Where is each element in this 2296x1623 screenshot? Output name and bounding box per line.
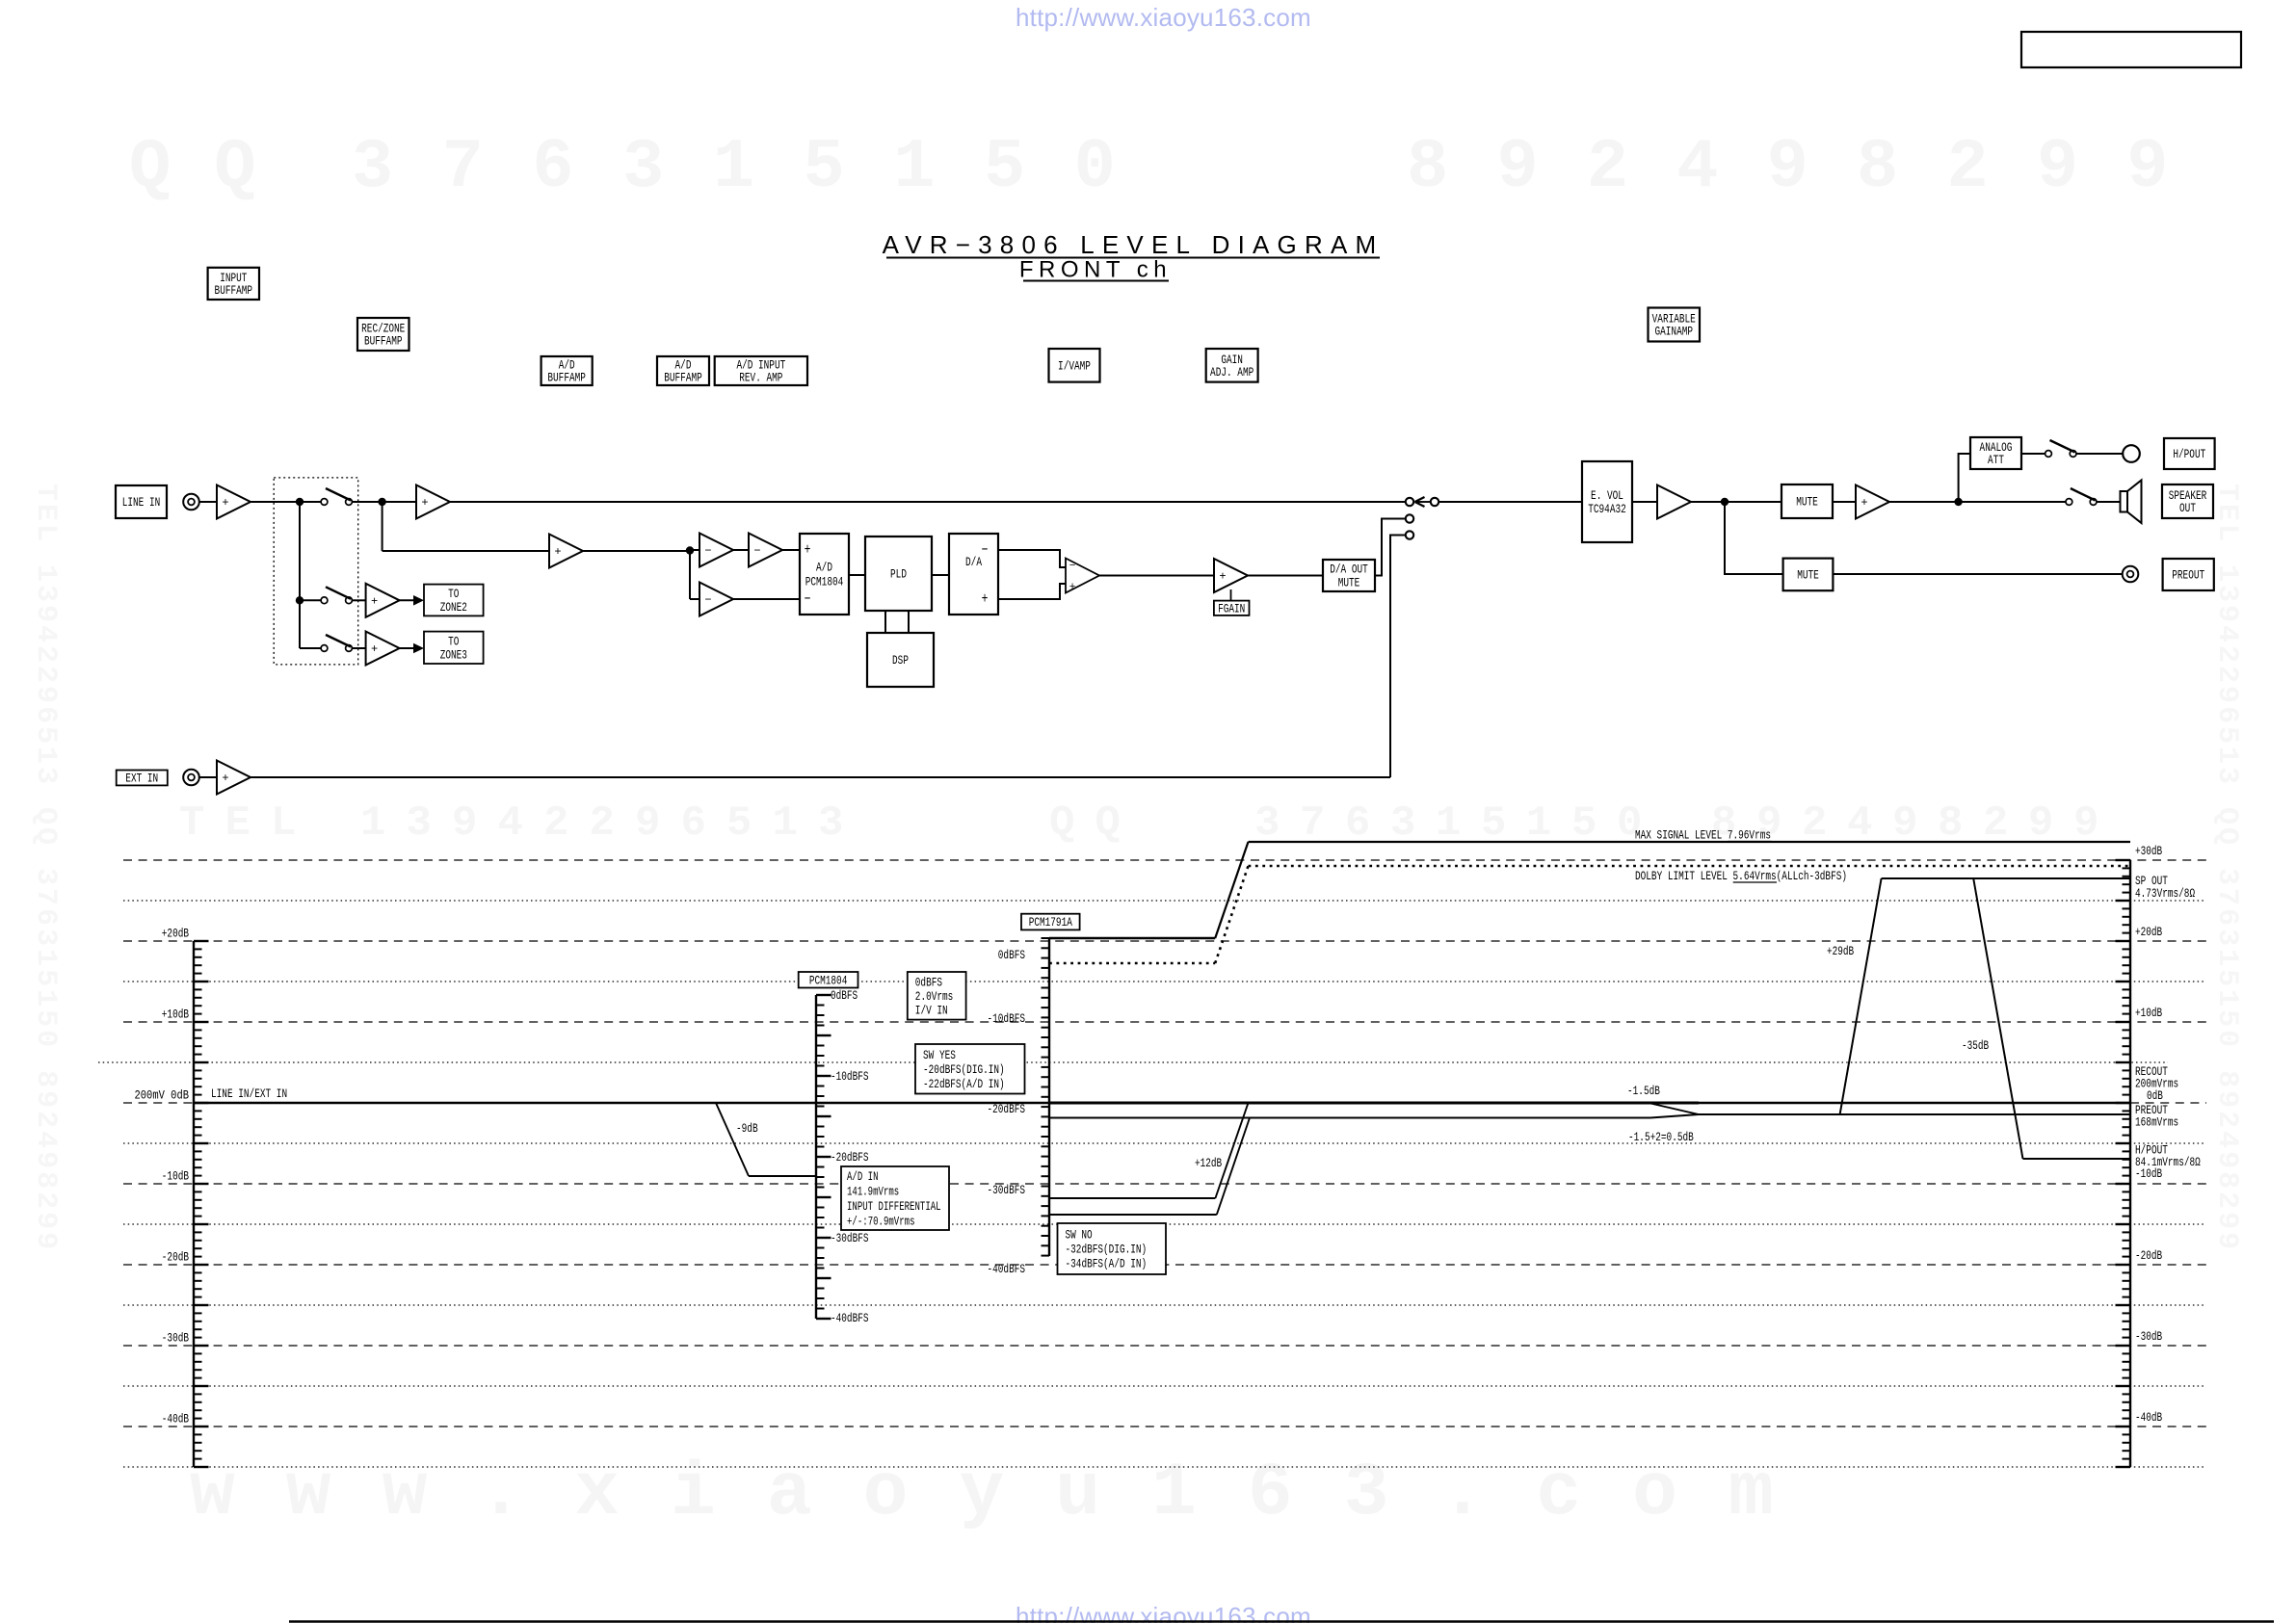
grid dashed -40dB [123, 1426, 2206, 1427]
switch S5 speaker [2066, 488, 2097, 505]
svg-text:MUTE: MUTE [1338, 576, 1360, 590]
svg-text:2.0Vrms: 2.0Vrms [915, 989, 954, 1004]
svg-text:ADJ. AMP: ADJ. AMP [1210, 365, 1254, 380]
svg-text:-40dB: -40dB [2135, 1410, 2162, 1425]
wire PLD to DSP left [884, 611, 886, 633]
grid dotted -5dB [123, 1142, 2206, 1144]
svg-text:+29dB: +29dB [1827, 944, 1854, 958]
svg-text:BUFFAMP: BUFFAMP [215, 283, 253, 298]
PCM1791A axis [1042, 938, 1050, 1256]
label box TO ZONE2 [424, 585, 484, 616]
svg-text:GAINAMP: GAINAMP [1655, 325, 1694, 339]
svg-text:+: + [371, 594, 378, 608]
annotation box I/V IN [908, 972, 966, 1020]
svg-text:TO: TO [448, 635, 459, 649]
svg-text:TEL 13942296513 QQ 376315150 8: TEL 13942296513 QQ 376315150 892498299 [29, 484, 62, 1252]
label box H/POUT [2164, 438, 2215, 469]
svg-text:+: + [222, 772, 228, 785]
switch S1 input [321, 488, 352, 505]
wire REC buffer to AD buffers [581, 550, 690, 552]
svg-text:ATT: ATT [1988, 453, 2004, 467]
wire AD to PLD [849, 574, 865, 576]
svg-text:−: − [982, 541, 989, 559]
svg-text:+30dB: +30dB [2135, 844, 2162, 858]
wire EXT IN riser to selector [1390, 536, 1405, 778]
label box LINE IN [116, 485, 167, 518]
svg-text:0dBFS: 0dBFS [915, 976, 942, 990]
block A/D PCM1804 [800, 534, 849, 615]
svg-text:-10dBFS: -10dBFS [831, 1069, 869, 1084]
junction main after amp [296, 498, 303, 506]
grid dashed +10dB [123, 1021, 2206, 1023]
grid dashed 0dB left stub [123, 1102, 194, 1104]
wire DA minus output [998, 550, 1066, 567]
op-amp A8 ad buffer inv2 [699, 583, 733, 616]
wire FGAIN box stub [1230, 589, 1232, 601]
level dotted DOLBY LIMIT LEVEL [1249, 865, 2131, 868]
op-amp A9 I/V diff amp [1066, 559, 1099, 594]
svg-text:+: + [982, 590, 989, 608]
svg-text:-30dBFS: -30dBFS [831, 1231, 869, 1245]
wire EXT IN amp to riser [251, 776, 1390, 778]
svg-text:+: + [1219, 570, 1226, 584]
svg-text:MUTE: MUTE [1797, 568, 1819, 583]
label box INPUT BUFFAMP [208, 268, 259, 300]
wire amp to AD converter plus [781, 549, 800, 551]
op-amp A1 input buffer [217, 485, 251, 519]
svg-text:PCM1804: PCM1804 [809, 974, 848, 988]
wire amp to mute junction [1690, 501, 1781, 503]
level line PREOUT 168mVrms [1699, 1113, 2130, 1115]
svg-text:QQ: QQ [129, 128, 299, 207]
wire selector to EVOL [1439, 501, 1583, 503]
op-amp A5 zone3 buffer [366, 632, 400, 666]
svg-text:-35dB: -35dB [1962, 1038, 1989, 1053]
wire EVOL to amp [1632, 501, 1657, 503]
svg-text:SW NO: SW NO [1066, 1228, 1093, 1243]
svg-text:A/D IN: A/D IN [847, 1170, 879, 1184]
svg-text:+20dB: +20dB [162, 927, 189, 941]
level line -1.5dB branch from 0dB [1649, 1103, 1699, 1114]
label box PREOUT [2163, 559, 2214, 590]
arrow to ZONE3 [413, 643, 424, 654]
level line -9dB ramp [716, 1103, 749, 1176]
label box VARIABLE GAINAMP [1649, 308, 1701, 342]
svg-text:-9dB: -9dB [736, 1121, 758, 1136]
svg-text:+/-:70.9mVrms: +/-:70.9mVrms [847, 1215, 915, 1228]
switch S4 headphone [2045, 440, 2076, 457]
svg-text:FGAIN: FGAIN [1218, 602, 1245, 616]
junction analog att [1954, 498, 1962, 506]
dotted selector box [274, 478, 358, 665]
level line MAX SIGNAL LEVEL 7.96Vrms [1249, 841, 2131, 843]
svg-text:REV. AMP: REV. AMP [739, 371, 782, 385]
svg-text:MAX SIGNAL LEVEL 7.96Vrms: MAX SIGNAL LEVEL 7.96Vrms [1635, 828, 1771, 843]
annotation box SW YES [915, 1044, 1025, 1094]
svg-text:www.xiaoyu163.com: www.xiaoyu163.com [190, 1452, 1825, 1536]
label box GAIN ADJ.AMP [1206, 349, 1258, 382]
svg-text:-20dB: -20dB [2135, 1248, 2162, 1263]
svg-text:LINE IN: LINE IN [122, 495, 161, 510]
svg-text:-40dBFS: -40dBFS [831, 1311, 869, 1325]
wire between inverting amps [732, 549, 749, 551]
svg-text:DSP: DSP [892, 653, 909, 668]
level line A/D IN [749, 1175, 816, 1177]
wire junction down to REC buffer [382, 502, 383, 551]
svg-text:BUFFAMP: BUFFAMP [547, 371, 586, 385]
junction zone2 [296, 596, 303, 604]
svg-text:-20dB: -20dB [162, 1250, 189, 1265]
grid dashed +30dB [123, 859, 2206, 861]
label box TO ZONE3 [424, 632, 484, 664]
op-amp A11 volume amp [1657, 485, 1691, 519]
grid dashed -20dB [123, 1264, 2206, 1266]
svg-text:I/VAMP: I/VAMP [1058, 359, 1091, 374]
block DSP [867, 633, 934, 687]
wire junction down to MUTE2 [1725, 502, 1783, 574]
wire final amp to speaker switch [1888, 501, 2066, 503]
junction rec/ad split [686, 546, 694, 554]
svg-text:BUFFAMP: BUFFAMP [664, 371, 702, 385]
level line -22dBFS out of PCM1791A [1049, 1117, 1650, 1119]
wire junction to upper inverting amp [690, 549, 699, 551]
PCM1804 axis [816, 995, 831, 1319]
wire zone3 switch to amp [352, 647, 366, 649]
level dotted DOLBY ramp [1215, 866, 1248, 963]
right dB axis [2116, 860, 2131, 1467]
svg-text:+: + [805, 541, 811, 559]
grid solid 0dB reference LINE IN/EXT IN level [194, 1102, 2130, 1104]
svg-text:QQ: QQ [1049, 799, 1141, 848]
svg-text:D/A: D/A [965, 555, 982, 569]
level ramp -35dB headphone [1973, 878, 2022, 1159]
svg-text:+: + [421, 496, 428, 510]
wire buffer to switch [251, 501, 321, 503]
wire zone2 amp to arrow [399, 599, 417, 601]
svg-text:-30dB: -30dB [2135, 1329, 2162, 1344]
svg-text:168mVrms: 168mVrms [2135, 1115, 2178, 1130]
svg-text:+20dB: +20dB [2135, 925, 2162, 939]
svg-text:−: − [805, 590, 811, 608]
svg-text:0dBFS: 0dBFS [998, 948, 1025, 962]
svg-text:TO: TO [448, 587, 459, 601]
svg-text:-20dBFS(DIG.IN): -20dBFS(DIG.IN) [923, 1062, 1005, 1077]
svg-text:+: + [554, 545, 561, 559]
op-amp A12 power amp [1856, 485, 1889, 519]
level ramp +29dB speaker [1840, 878, 1882, 1114]
switch S3 zone3 [321, 635, 352, 651]
svg-text:OUT: OUT [2179, 501, 2196, 515]
selector contact EXT [1406, 531, 1413, 538]
svg-text:-40dB: -40dB [162, 1412, 189, 1427]
op-amp A2 main buffer [416, 485, 450, 519]
level line MAX SIGNAL ramp [1215, 842, 1248, 938]
svg-text:DOLBY LIMIT LEVEL 5.64Vrms(ALL: DOLBY LIMIT LEVEL 5.64Vrms(ALLch-3dBFS) [1635, 869, 1847, 883]
svg-text:-1.5dB: -1.5dB [1627, 1084, 1660, 1098]
wire zone3 amp to arrow [399, 647, 417, 649]
annotation box A/D IN [841, 1166, 949, 1230]
level ramp +12dB upper [1215, 1103, 1248, 1198]
svg-text:TC94A32: TC94A32 [1588, 502, 1626, 516]
svg-text:+10dB: +10dB [2135, 1006, 2162, 1020]
svg-text:-34dBFS(A/D IN): -34dBFS(A/D IN) [1066, 1257, 1148, 1271]
op-amp A4 zone2 buffer [366, 584, 400, 617]
wire LINE IN jack to buffer [199, 501, 217, 503]
label MAX SIGNAL LEVEL [1635, 828, 1772, 843]
grid dotted +5dB [98, 1061, 2168, 1063]
block D/A [949, 534, 998, 615]
svg-text:-10dB: -10dB [162, 1169, 189, 1184]
svg-text:PCM1804: PCM1804 [805, 575, 844, 589]
svg-text:ZONE2: ZONE2 [440, 600, 467, 615]
switch S2 zone2 [321, 587, 352, 603]
jack PREOUT [2123, 566, 2139, 583]
level line kink to PREOUT [1650, 1114, 1699, 1118]
selector contact DA [1406, 514, 1413, 522]
grid dotted +15dB [123, 981, 2206, 982]
svg-text:-30dBFS: -30dBFS [988, 1183, 1026, 1197]
svg-text:+10dB: +10dB [162, 1008, 189, 1022]
svg-text:PREOUT: PREOUT [2172, 568, 2204, 583]
svg-text:AVR−3806 LEVEL DIAGRAM: AVR−3806 LEVEL DIAGRAM [883, 230, 1385, 259]
svg-text:LINE IN/EXT IN: LINE IN/EXT IN [211, 1086, 287, 1101]
title FRONT ch [1019, 257, 1172, 283]
grid dotted -25dB [123, 1304, 2206, 1306]
svg-text:http://www.xiaoyu163.com: http://www.xiaoyu163.com [1016, 1602, 1311, 1623]
wire FGAIN amp to DA OUT MUTE [1246, 575, 1323, 577]
svg-text:−: − [704, 544, 711, 558]
svg-text:ZONE3: ZONE3 [440, 648, 467, 663]
speaker symbol [2121, 481, 2142, 524]
junction before A2 [378, 498, 385, 506]
arrow to ZONE2 [413, 595, 424, 606]
selector contact common [1431, 498, 1438, 506]
left dB axis [194, 941, 209, 1467]
label DOLBY LIMIT LEVEL [1635, 869, 1847, 883]
wire MUTE2 to PREOUT jack [1833, 573, 2122, 575]
wire hp switch to jack [2076, 453, 2124, 455]
op-amp A10 gain adj [1214, 559, 1248, 592]
wire junction down to lower inverting amp [689, 550, 691, 599]
svg-text:MUTE: MUTE [1796, 495, 1818, 510]
block D/A OUT MUTE [1323, 560, 1375, 591]
op-amp A3 rec/zone buffer [549, 535, 583, 568]
wire zone2 junction to switch [300, 599, 321, 601]
svg-text:SW YES: SW YES [923, 1048, 956, 1062]
svg-text:4.73Vrms/8Ω: 4.73Vrms/8Ω [2135, 886, 2195, 901]
wire speaker switch to speaker [2097, 501, 2121, 503]
wire zone2 branch vertical [299, 502, 301, 648]
wire ANALOG ATT to hp switch [2021, 453, 2045, 455]
wire EXT IN jack to amp [199, 776, 217, 778]
grid dotted +25dB [123, 900, 2206, 902]
bottom edge dark line [289, 1620, 2274, 1622]
svg-text:376315150: 376315150 [1254, 799, 1662, 848]
wire zone2 switch to amp [352, 599, 366, 601]
jack H/P OUT [2123, 445, 2140, 462]
label box REC/ZONE BUFFAMP [357, 318, 409, 351]
svg-text:H/POUT: H/POUT [2173, 447, 2205, 461]
svg-text:-20dBFS: -20dBFS [988, 1102, 1026, 1116]
svg-text:200mV 0dB: 200mV 0dB [135, 1088, 190, 1103]
svg-text:-22dBFS(A/D IN): -22dBFS(A/D IN) [923, 1077, 1005, 1091]
top right blank box [2021, 32, 2241, 67]
block E.VOL TC94A32 [1582, 461, 1632, 542]
level line -20dBFS+12dB merged with 0dB [1049, 1102, 1699, 1105]
junction evol out [1721, 498, 1729, 506]
svg-text:+: + [371, 642, 378, 656]
svg-text:http://www.xiaoyu163.com: http://www.xiaoyu163.com [1016, 3, 1311, 32]
svg-text:BUFFAMP: BUFFAMP [364, 334, 403, 349]
svg-text:−: − [753, 544, 760, 558]
svg-text:+: + [222, 496, 228, 510]
wire junction up to ANALOG ATT [1959, 454, 1970, 502]
level line 0dBFS top bar PCM1791A [1049, 937, 1215, 939]
annotation box SW NO [1058, 1223, 1167, 1274]
label box A/D INPUT REV.AMP [715, 356, 807, 385]
main wire A2 to selector [449, 501, 1405, 503]
svg-text:A/D: A/D [816, 561, 832, 575]
grid dotted -45dB [123, 1466, 2206, 1468]
wire switch to A2 [352, 501, 416, 503]
wire DA plus output [998, 584, 1066, 599]
svg-text:-10dB: -10dB [2135, 1166, 2162, 1181]
svg-text:-10dBFS: -10dBFS [988, 1011, 1026, 1026]
svg-text:0dBFS: 0dBFS [831, 988, 858, 1003]
grid dashed -10dB [123, 1183, 2206, 1185]
grid dotted -35dB [123, 1385, 2206, 1387]
label box EXT IN [117, 771, 168, 786]
svg-text:-32dBFS(DIG.IN): -32dBFS(DIG.IN) [1066, 1243, 1148, 1257]
wire PLD to DA [932, 574, 949, 576]
svg-text:EXT IN: EXT IN [125, 772, 158, 786]
selector arrow [1415, 497, 1431, 507]
grid dotted -15dB [123, 1223, 2206, 1225]
selector contact main [1406, 498, 1413, 506]
label box SPEAKER OUT [2162, 484, 2213, 518]
op-amp A6 ad buffer inv1 [699, 534, 733, 567]
grid dashed +20dB [123, 940, 2206, 942]
label box A/D BUFFAMP 2 [657, 356, 709, 385]
svg-text:PLD: PLD [890, 567, 907, 582]
svg-text:376315150: 376315150 [352, 128, 1164, 207]
jack EXT IN [183, 770, 199, 786]
svg-text:-30dB: -30dB [162, 1331, 189, 1346]
level ramp +12dB lower [1217, 1118, 1250, 1216]
label box I/VAMP [1049, 349, 1100, 382]
op-amp A13 ext in buffer [217, 761, 251, 795]
svg-text:892498299: 892498299 [1407, 128, 2217, 207]
svg-text:−: − [704, 593, 711, 607]
svg-text:−: − [1069, 561, 1076, 572]
wire MUTE to final amp [1833, 501, 1856, 503]
op-amp A7 ad input rev [749, 534, 782, 567]
PCM1791A title box [1021, 914, 1080, 930]
label box A/D BUFFAMP 1 [541, 356, 593, 385]
level dotted DOLBY at -3dBFS [1049, 962, 1215, 965]
svg-text:-40dBFS: -40dBFS [988, 1262, 1026, 1276]
level line SW NO -34dBFS [1049, 1214, 1217, 1216]
grid dashed 0dB right stub [2130, 1102, 2206, 1104]
jack LINE IN [183, 494, 199, 510]
svg-text:0dB: 0dB [2147, 1088, 2163, 1103]
svg-text:141.9mVrms: 141.9mVrms [847, 1185, 899, 1198]
block FGAIN [1214, 601, 1250, 616]
level line SW NO -32dBFS [1049, 1197, 1215, 1199]
wire diff amp to FGAIN amp [1099, 575, 1214, 577]
wire DA OUT MUTE up to selector [1375, 519, 1405, 576]
svg-text:+: + [1069, 582, 1076, 593]
grid dashed -30dB [123, 1345, 2206, 1347]
svg-text:E. VOL: E. VOL [1591, 488, 1623, 503]
svg-text:+12dB: +12dB [1195, 1156, 1222, 1170]
svg-text:-20dBFS: -20dBFS [831, 1150, 869, 1165]
svg-text:TEL: TEL [179, 799, 317, 848]
svg-text:TEL 13942296513 QQ 376315150 8: TEL 13942296513 QQ 376315150 892498299 [2210, 484, 2243, 1252]
level line H/POUT [2023, 1158, 2131, 1160]
svg-text:I/V IN: I/V IN [915, 1004, 948, 1018]
PCM1804 title box [799, 972, 858, 988]
svg-text:+: + [1861, 496, 1867, 510]
block PLD [865, 537, 932, 611]
svg-text:892498299: 892498299 [1711, 799, 2119, 848]
block MUTE 1 [1781, 484, 1833, 518]
level line SP OUT 4.73Vrms [1882, 877, 2130, 879]
title AVR-3806 LEVEL DIAGRAM [883, 230, 1385, 259]
svg-text:INPUT DIFFERENTIAL: INPUT DIFFERENTIAL [847, 1200, 941, 1214]
block MUTE 2 [1783, 559, 1834, 591]
svg-text:FRONT ch: FRONT ch [1019, 257, 1172, 283]
svg-text:D/A OUT: D/A OUT [1330, 563, 1368, 577]
block ANALOG ATT [1970, 437, 2021, 469]
svg-text:-1.5+2=0.5dB: -1.5+2=0.5dB [1628, 1130, 1694, 1144]
wire lower amp to AD converter minus [732, 598, 800, 600]
svg-text:PCM1791A: PCM1791A [1029, 915, 1072, 929]
svg-text:13942296513: 13942296513 [360, 799, 864, 848]
wire zone3 junction to switch [300, 647, 321, 649]
wire PLD to DSP right [908, 611, 910, 633]
